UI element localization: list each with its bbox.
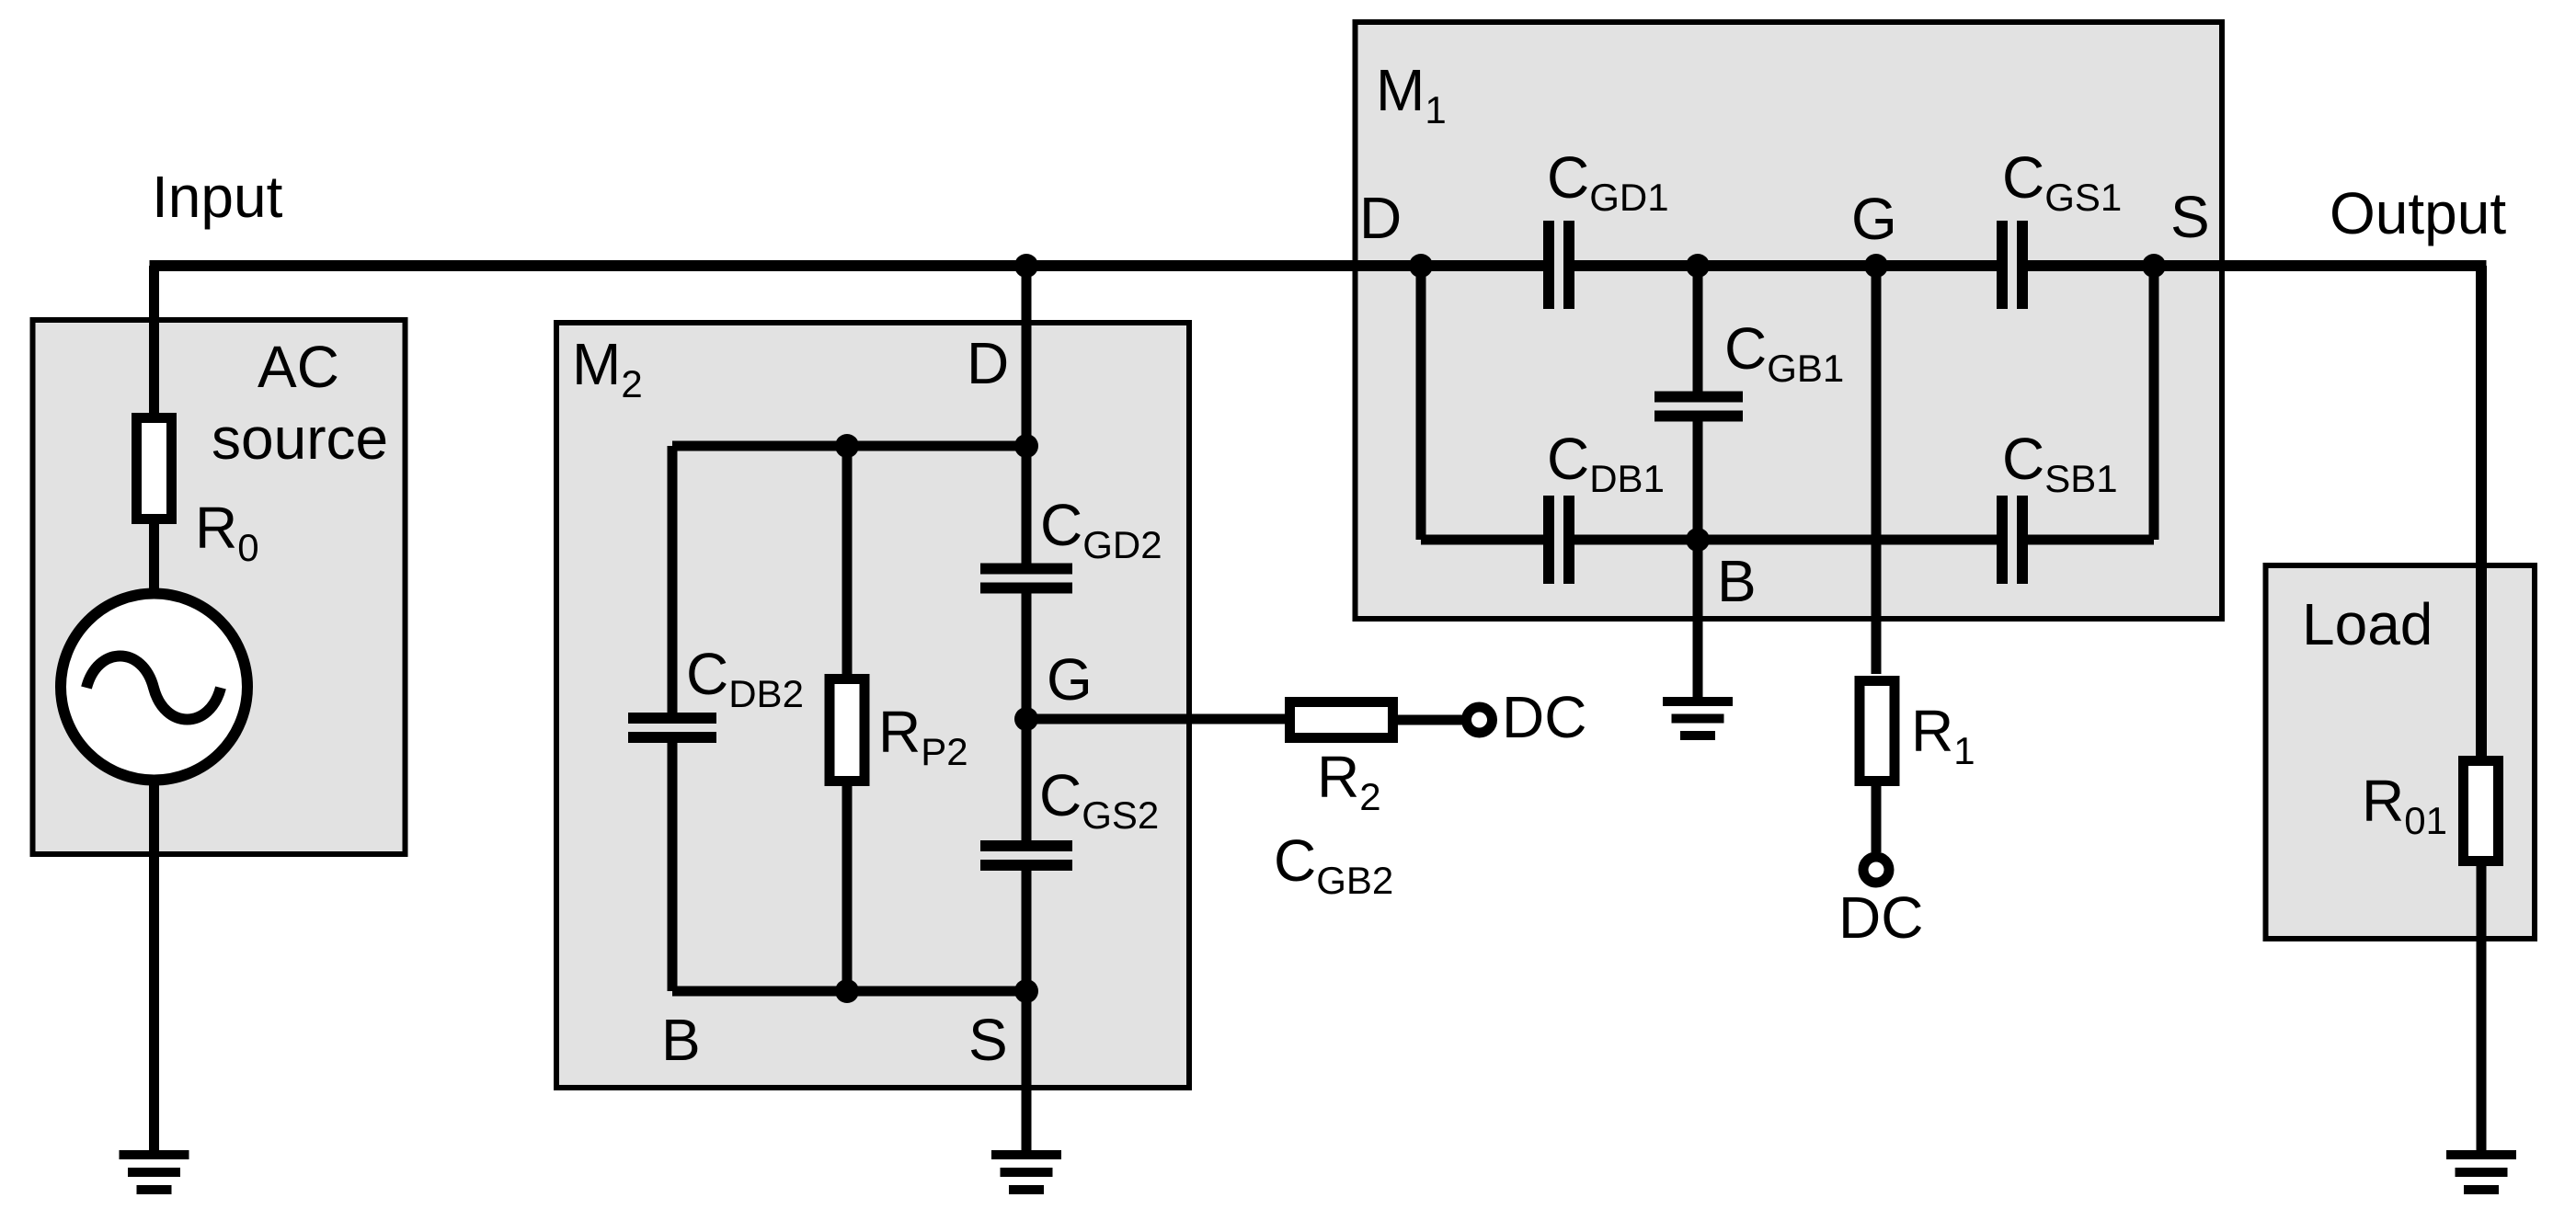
wire: M1 bottom middle segment	[1574, 535, 1997, 545]
svg-text:Output: Output	[2330, 180, 2506, 246]
wire: M1 bottom right segment	[2028, 535, 2154, 545]
node: M2 source	[1014, 979, 1038, 1003]
svg-text:DC: DC	[1838, 884, 1923, 951]
wire: M2 gate to R2	[1026, 714, 1289, 724]
svg-text:G: G	[1047, 646, 1093, 713]
wire: CGB1 bottom lead	[1693, 422, 1703, 541]
svg-text:D: D	[967, 330, 1009, 396]
wire: M2 inner top horizontal	[672, 441, 1026, 451]
capacitor CDB2	[628, 713, 716, 743]
svg-text:Input: Input	[152, 164, 283, 230]
node: M1 bulk B	[1686, 528, 1710, 552]
wire: M2 left vertical lower	[668, 743, 678, 991]
svg-text:AC: AC	[258, 334, 339, 400]
wire: RP2 top lead	[842, 446, 853, 674]
capacitor CSB1	[1997, 496, 2028, 584]
resistor R01	[2464, 761, 2499, 861]
node: main wire / M2 drain	[1014, 254, 1038, 278]
node: top wire / RP2	[835, 434, 859, 458]
M2 box	[556, 323, 1189, 1088]
M1 box	[1356, 22, 2223, 619]
capacitor CGD1	[1543, 221, 1574, 309]
wire: R01 to ground	[2477, 866, 2487, 1150]
terminal DC (drain bias)	[1863, 857, 1889, 883]
wire: M1 right vertical	[2149, 266, 2159, 540]
ground (AC source)	[120, 1155, 189, 1190]
wire: AC circle to ground	[149, 780, 159, 1150]
wire: B to ground	[1693, 540, 1703, 697]
svg-text:DC: DC	[1502, 684, 1586, 750]
node: CGD1 / CGB1 junction	[1686, 254, 1710, 278]
resistor R2	[1290, 702, 1393, 738]
wire: M1 bottom left segment	[1421, 535, 1543, 545]
terminal DC (gate bias)	[1467, 707, 1493, 733]
svg-text:S: S	[968, 1007, 1008, 1073]
wire: M1 gate vertical	[1872, 266, 1882, 674]
node: M2 gate	[1014, 707, 1038, 731]
AC source symbol	[61, 594, 247, 781]
wire: main bus right segment (CGS1 to Output)	[2028, 260, 2487, 271]
resistor R0	[137, 418, 172, 519]
node: top wire / D vertical	[1014, 434, 1038, 458]
capacitor CGD2	[980, 564, 1072, 594]
svg-text:source: source	[212, 405, 388, 472]
svg-text:B: B	[661, 1007, 701, 1073]
svg-text:Load: Load	[2302, 591, 2433, 657]
capacitor CGS1	[1997, 221, 2028, 309]
capacitor CGS2	[980, 840, 1072, 871]
capacitor CDB1	[1543, 496, 1574, 584]
wire: input vertical	[149, 266, 159, 417]
wire: M2 gate vertical	[1022, 594, 1032, 841]
ground (M1 bulk)	[1663, 702, 1733, 736]
node: M1 drain	[1409, 254, 1433, 278]
node: M1 gate	[1864, 254, 1888, 278]
ground (load)	[2446, 1155, 2516, 1190]
node: M1 source	[2142, 254, 2166, 278]
wire: R1 to DC terminal	[1872, 786, 1882, 852]
wire: M2 inner bottom horizontal	[672, 987, 1026, 997]
capacitor CGB1	[1654, 392, 1743, 422]
wire: CGB1 top lead	[1693, 266, 1703, 392]
wire: M2 drain vertical (top)	[1022, 266, 1032, 564]
wire: R2 to DC terminal	[1398, 715, 1466, 725]
AC source box	[33, 320, 406, 854]
resistor RP2	[830, 679, 864, 781]
wire: R0 to AC circle	[149, 519, 159, 598]
Load box	[2266, 565, 2536, 939]
svg-text:B: B	[1717, 548, 1757, 614]
wire: output vertical	[2476, 266, 2487, 756]
node: bottom wire / RP2	[835, 979, 859, 1003]
svg-text:G: G	[1851, 186, 1897, 252]
wire: M1 left vertical	[1416, 266, 1426, 540]
wire: RP2 bottom lead	[842, 786, 853, 991]
wire: main bus middle segment (CGD1 to CGS1)	[1574, 260, 1997, 271]
wire: M2 source vertical	[1022, 871, 1032, 991]
resistor R1	[1860, 681, 1895, 781]
svg-text:S: S	[2170, 184, 2210, 250]
ground (M2 source)	[991, 1155, 1061, 1190]
wire: main bus left segment (Input to CGD1)	[150, 260, 1544, 271]
wire: M2 source to ground	[1022, 991, 1032, 1150]
wire: M2 left vertical upper	[668, 446, 678, 713]
svg-text:D: D	[1359, 185, 1402, 251]
